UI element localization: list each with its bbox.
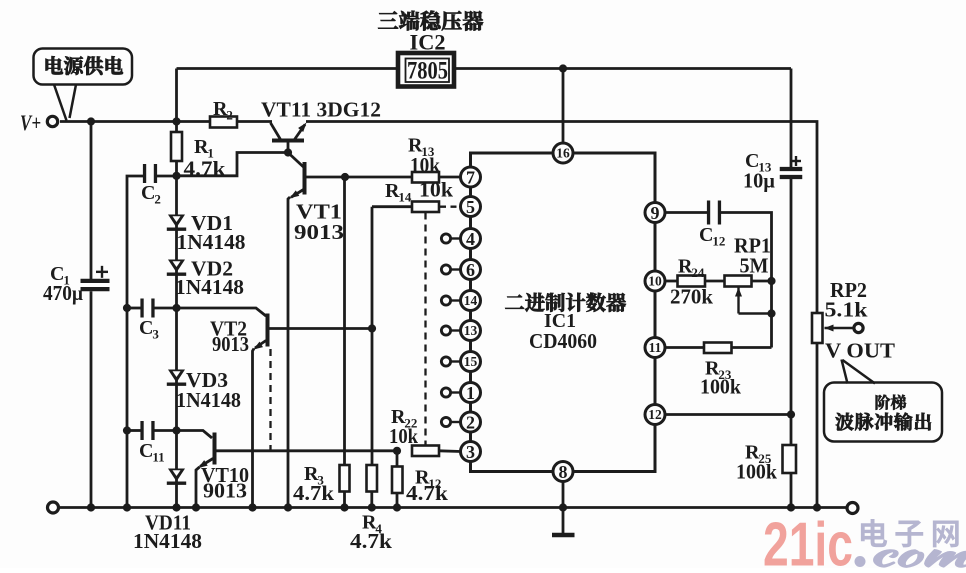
regulator U IC2 7805 box <box>398 53 454 87</box>
watermark .com <box>855 556 866 567</box>
junction: VT2 base to R14 column <box>368 324 376 332</box>
wire: pin 9 row to C12 <box>665 211 707 214</box>
diode VD3 1N4148 <box>168 370 185 383</box>
terminal: ground rail left <box>48 502 59 513</box>
svg-text:11: 11 <box>649 340 662 355</box>
resistor R3 4.7k <box>343 177 346 465</box>
svg-text:7805: 7805 <box>407 56 448 85</box>
resistor R14 10k <box>412 202 439 213</box>
svg-text:1N4148: 1N4148 <box>177 230 246 254</box>
resistor R22 10k <box>412 446 439 457</box>
capacitor C12 <box>707 201 710 225</box>
junction: VT11 base / VT1 collector node <box>284 148 292 156</box>
svg-text:C: C <box>141 182 155 204</box>
svg-text:4: 4 <box>466 229 475 249</box>
svg-text:7: 7 <box>466 167 475 187</box>
capacitor C2 <box>143 164 146 183</box>
svg-text:12: 12 <box>712 234 725 249</box>
pin 4 <box>451 237 462 239</box>
wire: C13 to pin 12 node and R25 <box>790 179 793 445</box>
pin 7 <box>461 167 481 187</box>
pin 5 <box>461 197 481 217</box>
junction dots on ground rail <box>87 503 95 511</box>
junction: pin16 tap on 5V rail <box>559 64 567 72</box>
pin 14 <box>451 299 462 301</box>
svg-text:4.7k: 4.7k <box>350 529 392 553</box>
svg-text:5.1k: 5.1k <box>825 298 868 322</box>
svg-text:10k: 10k <box>419 178 453 202</box>
svg-text:V OUT: V OUT <box>825 339 896 363</box>
wire: V+ rail from R2 to VT11 collector <box>237 120 272 123</box>
svg-text:VT11 3DG12: VT11 3DG12 <box>261 98 381 122</box>
svg-text:2: 2 <box>466 412 475 432</box>
junction: R1 riser on V+ rail <box>172 117 180 125</box>
svg-text:100k: 100k <box>700 375 741 399</box>
svg-text:C: C <box>139 317 153 339</box>
resistor R23 100k <box>704 343 732 354</box>
svg-text:4.7k: 4.7k <box>406 481 448 505</box>
diode VD11 1N4148 <box>168 469 185 482</box>
wire: V+ riser x=176.5 top rail to R1 <box>175 69 178 133</box>
terminal: ground rail right <box>847 503 858 514</box>
capacitor C11 <box>127 429 143 432</box>
capacitor C1 470µ electrolytic <box>81 279 110 283</box>
svg-text:3: 3 <box>466 442 475 462</box>
junction: C3 node on diode column <box>172 304 180 312</box>
svg-text:3: 3 <box>152 327 159 342</box>
wire: R13 to pin 7 <box>439 176 461 179</box>
pin 8 <box>553 462 573 482</box>
resistor R13 10k <box>412 172 439 183</box>
svg-text:1N4148: 1N4148 <box>176 388 241 412</box>
resistor R1 4.7k <box>171 132 182 161</box>
svg-text:V+: V+ <box>20 110 41 135</box>
resistor R12 4.7k <box>396 451 399 467</box>
wire: VT1 emitter drop x=288 <box>288 197 290 508</box>
svg-text:11: 11 <box>152 450 164 465</box>
resistor R2 <box>210 117 237 128</box>
wire: R24 to RP1 <box>705 280 725 283</box>
pin 9 <box>645 203 665 223</box>
wire: top rail from V+ riser to 7805 input <box>177 67 400 70</box>
svg-text:9013: 9013 <box>203 479 247 503</box>
wire: pin 8 to ground rail <box>562 482 565 508</box>
pin 16 <box>553 143 573 163</box>
svg-text:9013: 9013 <box>212 332 249 356</box>
svg-text:4.7k: 4.7k <box>293 481 334 505</box>
wire: ground rail <box>59 506 848 509</box>
junction: RP1 right terminal <box>767 277 775 285</box>
wire: R1 bottom to node A <box>175 161 178 176</box>
label: 三端稳压器 (three-terminal regulator) <box>378 11 398 28</box>
svg-text:100k: 100k <box>736 460 777 484</box>
svg-text:5M: 5M <box>740 254 769 278</box>
wire: +V rail from VT11 emitter to right edge, down to RP2 <box>306 122 817 314</box>
svg-text:4.7k: 4.7k <box>184 157 226 181</box>
svg-text:1N4148: 1N4148 <box>133 529 202 553</box>
wire: V+ rail <box>60 120 210 123</box>
potentiometer RP1 5M <box>725 276 752 287</box>
svg-text:470µ: 470µ <box>43 281 83 305</box>
callout: power supply label 电源供电 <box>34 49 133 85</box>
resistor R24 270k <box>665 280 678 283</box>
svg-text:14: 14 <box>398 190 412 205</box>
svg-text:14: 14 <box>464 293 478 308</box>
wire: C2 right plate to node A <box>156 175 177 178</box>
wire: R14 row <box>372 205 412 208</box>
svg-text:270k: 270k <box>670 285 713 309</box>
svg-text:C: C <box>139 440 153 462</box>
junction: R22/R12/VT10 base node <box>393 447 401 455</box>
svg-text:24: 24 <box>691 265 705 280</box>
capacitor C3 <box>127 307 143 310</box>
wire: C12 to right column x=771.5 <box>721 213 772 348</box>
junction: pin 12 / C13 / R25 node <box>787 410 795 418</box>
pin 11 <box>645 338 665 358</box>
svg-text:10k: 10k <box>389 424 418 448</box>
op-amp U IC1 CD4060 binary counter box <box>471 153 656 472</box>
wire: 5V drop to IC pin 16 <box>562 69 565 145</box>
svg-text:6: 6 <box>466 260 475 280</box>
pin 2 <box>451 421 462 423</box>
svg-text:C: C <box>699 224 713 246</box>
resistor R4 4.7k <box>367 465 378 492</box>
pin 13 <box>451 329 462 331</box>
pin 12 <box>645 405 665 425</box>
wire: top rail from 7805 output to C13 drop <box>456 67 792 70</box>
capacitor C13 10µ electrolytic <box>790 69 793 168</box>
wire: pin 12 row <box>665 413 791 416</box>
svg-text:9013: 9013 <box>294 220 344 244</box>
svg-text:10: 10 <box>648 274 662 289</box>
svg-text:1: 1 <box>466 383 475 403</box>
svg-text:10µ: 10µ <box>743 169 775 193</box>
svg-text:2: 2 <box>154 192 161 207</box>
wire: diode chain column x=176.5 <box>175 176 178 508</box>
svg-text:12: 12 <box>648 407 662 422</box>
resistor R25 100k <box>783 445 797 473</box>
diode VD1 1N4148 <box>168 215 185 228</box>
wire: R22 to pin 3 <box>439 449 461 453</box>
junction: C1 tap <box>87 117 95 125</box>
node A: R1/C2 junction to VT11 base jog <box>177 153 289 176</box>
wire: dashed VT2 to VT10 base row <box>269 349 271 450</box>
svg-text:1N4148: 1N4148 <box>175 275 244 299</box>
svg-text:16: 16 <box>556 146 570 161</box>
junction: R25 to ground rail <box>787 503 795 511</box>
wire: VT1 base row y=177 to R13 <box>307 176 413 179</box>
svg-text:13: 13 <box>464 323 478 338</box>
svg-text:CD4060: CD4060 <box>529 329 597 353</box>
wire: pin 11 row to R23 <box>665 346 704 349</box>
wire: C1 leads <box>90 122 93 280</box>
svg-text:8: 8 <box>559 462 568 482</box>
diode VD2 1N4148 <box>168 260 185 273</box>
svg-text:21ic: 21ic <box>763 511 853 569</box>
junction: C11 node on diode column <box>172 426 180 434</box>
wire: dashed drop from R14 x=425.5 <box>424 213 426 448</box>
pin 6 <box>451 268 462 270</box>
wire: R23 to wiper column <box>732 346 772 349</box>
junction: pin 8 ground tap <box>559 503 567 511</box>
svg-text:10k: 10k <box>410 153 440 177</box>
svg-text:15: 15 <box>464 354 478 369</box>
watermark 电子网 <box>861 519 887 547</box>
svg-text:5: 5 <box>466 197 475 217</box>
svg-text:2: 2 <box>226 108 233 123</box>
pin 3 <box>461 442 481 462</box>
ground <box>562 508 565 534</box>
pin 10 <box>645 271 665 291</box>
svg-text:9: 9 <box>651 203 660 223</box>
wire: VT10 emitter drop x=196 <box>196 467 200 508</box>
wire: VT2 emitter drop x=252.5 <box>253 349 255 508</box>
junction: RP1 wiper tap <box>767 309 775 317</box>
junction: RP2 bottom on ground rail <box>813 503 821 511</box>
junction: node A dot <box>172 172 180 180</box>
pin 15 <box>451 360 462 362</box>
callout: staircase pulse output 阶梯波脉冲输出 <box>824 383 942 442</box>
wire: dashed R14 to pin 5 <box>440 206 461 208</box>
potentiometer RP2 5.1k <box>812 313 823 343</box>
wire: R14/VT2-base/R4 column x=372 <box>371 207 374 465</box>
junction: R3 riser tap on base row <box>341 173 349 181</box>
wire: RP2 bottom to ground rail <box>816 343 819 508</box>
pin 1 <box>451 391 462 393</box>
wire: left column x=127 C2/C3/C11 common <box>127 176 144 508</box>
